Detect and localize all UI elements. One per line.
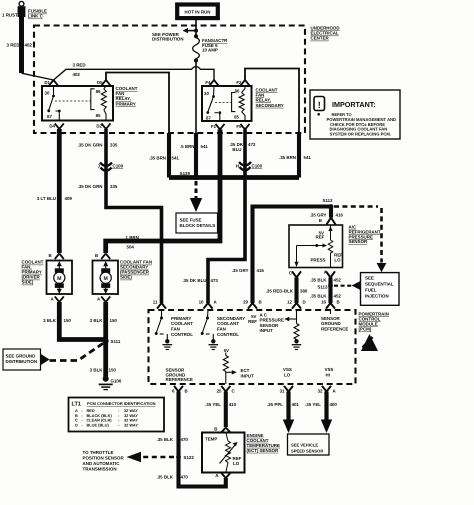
svg-text:410: 410	[229, 402, 237, 407]
svg-text:LO: LO	[284, 372, 291, 377]
junction dot	[194, 29, 198, 33]
svg-text:AND AUTOMATIC: AND AUTOMATIC	[83, 461, 121, 466]
svg-text:GROUND: GROUND	[321, 321, 342, 326]
label: underhood electrical center	[311, 26, 341, 41]
svg-text:D4: D4	[49, 124, 55, 129]
svg-text:.35 PPL: .35 PPL	[267, 402, 283, 407]
svg-text:B: B	[95, 253, 98, 258]
PCM pin 29 B	[243, 300, 262, 309]
svg-text:150: 150	[109, 368, 117, 373]
wire .35 RED-BLK 380 sensor C to PCM 12	[266, 278, 308, 304]
svg-text:POSITION SENSOR: POSITION SENSOR	[83, 456, 125, 461]
svg-text:402: 402	[73, 72, 81, 77]
svg-text:FAN: FAN	[217, 327, 226, 332]
dashed reference from S113 to sequential fuel injection	[334, 281, 361, 290]
sensor pin A	[324, 270, 335, 278]
wire .35 BLK 452 sensor A to PCM 16 with splice S113	[310, 277, 341, 303]
pin F4	[205, 80, 218, 86]
svg-text:F2: F2	[236, 80, 242, 85]
svg-text:TO THROTTLE: TO THROTTLE	[83, 450, 114, 455]
svg-text:473: 473	[248, 142, 256, 147]
wire .35 DK BLU 473 from F5 to PCM pin 10	[182, 130, 256, 304]
svg-text:CONTROL: CONTROL	[171, 332, 193, 337]
svg-text:DISTRIBUTION: DISTRIBUTION	[6, 359, 38, 364]
svg-text:10 AMP: 10 AMP	[202, 47, 218, 52]
coolant fan secondary motor M2	[93, 253, 119, 302]
relay primary dashed actuation link	[55, 100, 91, 102]
PCM internal: sensor ground reference (bottom left)	[166, 368, 193, 383]
svg-text:LO: LO	[334, 258, 341, 263]
svg-text:.35 YEL: .35 YEL	[305, 402, 321, 407]
svg-text:S112: S112	[323, 198, 334, 203]
svg-text:BLOCK DETAILS: BLOCK DETAILS	[180, 223, 216, 228]
svg-text:!: !	[318, 100, 321, 110]
pin F2	[236, 80, 249, 86]
svg-text:86: 86	[96, 89, 101, 94]
wire .35 BRN 541 from D5 to S139	[106, 73, 179, 178]
PCM pin 32 A (bottom)	[318, 386, 337, 394]
wire 3 LT BLU 409 from D4 to primary fan	[37, 129, 73, 253]
svg-text:D: D	[75, 422, 78, 427]
svg-text:LO: LO	[233, 461, 240, 466]
see sequential fuel injection box	[361, 273, 400, 306]
svg-text:RELAY,: RELAY,	[256, 98, 271, 103]
label: coolant fan secondary (passenger side)	[120, 260, 152, 280]
PCM pin 10 A	[199, 300, 218, 309]
svg-text:BLU: BLU	[232, 147, 241, 152]
wire .35 DK GRN 335 from D2 to PCM pin 11	[78, 129, 162, 303]
PCM internal: sensor ground reference (top right)	[321, 310, 348, 332]
svg-text:5V: 5V	[224, 348, 229, 353]
svg-text:REF: REF	[248, 319, 257, 324]
svg-text:SECONDARY: SECONDARY	[217, 316, 245, 321]
svg-text:.35 BRN: .35 BRN	[149, 155, 166, 160]
svg-text:400: 400	[330, 402, 338, 407]
PCM pin 12 D	[287, 300, 306, 309]
PCM pin 16 B	[321, 300, 340, 309]
PCM internal: 5V divider for ECT input	[223, 348, 254, 384]
coolant fan relay, primary (box)	[42, 86, 138, 121]
coolant fan primary motor M1	[47, 253, 73, 302]
svg-text:REFERENCE: REFERENCE	[321, 327, 348, 332]
dashed reference from S122 to throttle position sensor	[83, 450, 175, 472]
svg-text:BLUE (BLU): BLUE (BLU)	[87, 422, 110, 427]
svg-text:SENSOR: SENSOR	[260, 323, 280, 328]
svg-text:470: 470	[181, 475, 189, 480]
svg-text:INPUT: INPUT	[260, 328, 274, 333]
svg-text:VSS: VSS	[325, 367, 334, 372]
svg-text:F1: F1	[211, 124, 217, 129]
PCM internal: primary coolant fan control driver	[155, 310, 194, 350]
wire .35 YEL 400 from PCM 32	[305, 392, 337, 434]
svg-text:10: 10	[199, 300, 204, 305]
dashed reference to sequential fuel injection from S112	[334, 207, 386, 273]
svg-text:.35 GRY: .35 GRY	[310, 212, 327, 217]
svg-text:LT1: LT1	[72, 402, 82, 408]
svg-text:452: 452	[334, 293, 342, 298]
connector C100 pin J	[98, 163, 124, 171]
svg-text:FAN: FAN	[171, 327, 180, 332]
svg-text:SEE GROUND: SEE GROUND	[6, 354, 37, 359]
wire 3 BLK 150 from S111 to G106	[90, 341, 117, 379]
svg-text:3 RED: 3 RED	[7, 43, 21, 48]
svg-text:S111: S111	[111, 339, 121, 344]
svg-text:30: 30	[45, 91, 50, 96]
svg-text:.35 BLK: .35 BLK	[310, 293, 327, 298]
relay secondary dashed actuation link	[215, 102, 232, 104]
svg-text:DISTRIBUTION: DISTRIBUTION	[152, 37, 184, 42]
svg-text:85: 85	[96, 113, 101, 118]
svg-text:.35 BRN: .35 BRN	[279, 155, 296, 160]
see ground distribution box	[3, 349, 50, 370]
svg-text:.35 BLK: .35 BLK	[156, 475, 173, 480]
svg-text:HOT IN RUN: HOT IN RUN	[185, 9, 211, 14]
svg-text:SIDE): SIDE)	[120, 275, 132, 280]
svg-text:3 BLK: 3 BLK	[90, 318, 104, 323]
PCM internal: VSS LO / VSS HI labels	[283, 367, 333, 377]
svg-text:S113: S113	[317, 285, 328, 290]
relay secondary coil 86/85	[232, 86, 245, 121]
svg-text:PRIMARY: PRIMARY	[116, 101, 136, 106]
svg-text:PRIMARY: PRIMARY	[171, 316, 191, 321]
fusible link C	[2, 1, 47, 18]
pin D4	[49, 123, 63, 129]
svg-text:PRESS: PRESS	[310, 258, 325, 263]
svg-text:CENTER: CENTER	[311, 36, 330, 41]
svg-text:335: 335	[110, 184, 118, 189]
label: engine coolant temperature sensor	[247, 433, 280, 453]
svg-text:.35 BLK: .35 BLK	[156, 437, 173, 442]
svg-text:3 LT BLU: 3 LT BLU	[37, 196, 56, 201]
svg-text:SPEED SENSOR: SPEED SENSOR	[291, 449, 323, 454]
svg-text:12: 12	[287, 300, 292, 305]
svg-text:452: 452	[334, 277, 342, 282]
svg-text:SIDE): SIDE)	[22, 280, 34, 285]
svg-text:INPUT: INPUT	[241, 373, 255, 378]
svg-text:(PCM): (PCM)	[359, 327, 372, 332]
svg-text:B: B	[337, 300, 340, 305]
PCM internal: secondary coolant fan control driver	[201, 310, 246, 350]
svg-text:470: 470	[181, 437, 189, 442]
A/C refrigerant pressure sensor box	[289, 225, 381, 268]
svg-text:IMPORTANT:: IMPORTANT:	[332, 100, 376, 109]
underhood electrical center dashed box	[34, 26, 305, 134]
svg-text:SYSTEM OR REPLACING PCM.: SYSTEM OR REPLACING PCM.	[330, 132, 391, 137]
wire 3 BLK 150 from M1 to S111	[43, 302, 106, 340]
svg-text:409: 409	[65, 196, 73, 201]
PCM pin 25 C (bottom)	[217, 386, 236, 394]
sensor pin C	[289, 271, 301, 278]
svg-text:REFERENCE: REFERENCE	[166, 377, 193, 382]
svg-text:TRANSMISSION: TRANSMISSION	[83, 467, 117, 472]
wire .35 PPL 401 from PCM 31	[267, 392, 299, 434]
svg-text:REF: REF	[316, 235, 325, 240]
svg-text:87: 87	[206, 115, 211, 120]
svg-text:S139: S139	[180, 171, 191, 176]
svg-text:B: B	[319, 218, 322, 223]
junction dot below fuse	[194, 58, 198, 62]
svg-text:30: 30	[204, 91, 209, 96]
svg-text:29: 29	[243, 300, 248, 305]
sensor internals: potentiometer	[294, 225, 343, 268]
svg-text:B: B	[185, 389, 188, 394]
svg-text:PCM CONNECTOR IDENTIFICATION: PCM CONNECTOR IDENTIFICATION	[87, 401, 156, 406]
PCM internal: A/C pressure sensor input	[260, 312, 284, 333]
svg-text:B: B	[259, 300, 262, 305]
fuse FANS/ACTR FUSE 6 10 AMP	[193, 38, 229, 59]
svg-text:3 BLK: 3 BLK	[43, 318, 57, 323]
svg-text:B: B	[214, 427, 217, 432]
svg-text:.35 RED-BLK: .35 RED-BLK	[266, 289, 294, 294]
svg-text:25: 25	[217, 389, 222, 394]
HOT IN RUN box	[177, 5, 218, 19]
wire 3 RED 402 from fusible link	[7, 17, 54, 80]
svg-text:HI: HI	[326, 372, 330, 377]
svg-text:.35 DK GRN: .35 DK GRN	[78, 142, 103, 147]
wire 3 BLK 150 from M2 to S111	[90, 302, 118, 341]
see power distribution arrow	[152, 28, 196, 42]
svg-text:.35 YEL: .35 YEL	[205, 402, 221, 407]
svg-text:(ECT) SENSOR: (ECT) SENSOR	[247, 448, 280, 453]
svg-text:FUEL: FUEL	[365, 288, 377, 293]
svg-text:85: 85	[234, 114, 239, 119]
PCM internal: pull-up on pin 12 with input arrow	[284, 310, 301, 350]
svg-text:SECONDARY: SECONDARY	[256, 103, 284, 108]
svg-text:A C: A C	[260, 312, 268, 317]
svg-text:D5: D5	[97, 80, 103, 85]
label: coolant fan primary (driver side)	[22, 260, 44, 285]
svg-text:M: M	[57, 276, 61, 282]
svg-text:.5 BRN: .5 BRN	[180, 144, 195, 149]
label: powertrain control module (PCM)	[359, 311, 389, 331]
svg-text:504: 504	[127, 245, 135, 250]
svg-text:.35 BLK: .35 BLK	[310, 277, 327, 282]
PCM pin 6 B (bottom)	[172, 386, 188, 394]
svg-text:C100: C100	[252, 164, 263, 169]
ground G106	[99, 376, 122, 390]
svg-text:M: M	[104, 276, 108, 282]
svg-text:541: 541	[201, 144, 209, 149]
splice S111	[103, 338, 121, 344]
svg-text:416: 416	[336, 212, 344, 217]
wire .35 BRN 541 from F2 to S139	[245, 69, 311, 178]
svg-text:ECT: ECT	[241, 368, 250, 373]
see vehicle speed sensor box	[288, 434, 330, 455]
svg-text:402: 402	[25, 43, 33, 48]
svg-text:D1: D1	[44, 80, 50, 85]
wire .5 BRN 541 from fuse down to S139	[180, 61, 208, 178]
svg-text:31: 31	[280, 389, 285, 394]
svg-text:86: 86	[235, 88, 240, 93]
wire .35 YEL 410 from PCM 25 to ECT B	[205, 392, 237, 428]
relay primary internals: 30 contact and switch	[45, 86, 61, 120]
wire from HOT IN RUN down	[195, 20, 197, 38]
svg-text:LINK C: LINK C	[28, 14, 44, 19]
svg-text:380: 380	[300, 289, 308, 294]
see fuse block details box	[176, 213, 218, 233]
svg-text:32: 32	[318, 389, 323, 394]
svg-text:F4: F4	[205, 80, 211, 85]
svg-text:401: 401	[292, 402, 300, 407]
pin D5	[97, 80, 111, 86]
pin F5	[236, 124, 249, 130]
dashed link to S111	[50, 343, 104, 361]
svg-text:RELAY,: RELAY,	[116, 96, 131, 101]
svg-text:150: 150	[64, 318, 72, 323]
svg-text:TEMP: TEMP	[205, 437, 217, 442]
wire 3 RED 402 horizontal feed to D1 and F4	[54, 63, 215, 81]
pin D1	[44, 80, 58, 86]
engine coolant temperature (ECT) sensor	[202, 427, 245, 479]
svg-text:3 RED: 3 RED	[73, 63, 87, 68]
svg-text:541: 541	[304, 155, 312, 160]
svg-text:SENSOR: SENSOR	[349, 239, 369, 244]
relay primary coil 86/85	[91, 86, 107, 120]
svg-text:11: 11	[153, 300, 158, 305]
PCM dashed box	[149, 310, 356, 384]
svg-text:COOLANT: COOLANT	[217, 321, 239, 326]
svg-text:B: B	[49, 253, 52, 258]
svg-text:.35 DK BLU: .35 DK BLU	[182, 278, 206, 283]
coolant fan relay, secondary (box)	[202, 86, 284, 121]
relay secondary internals: 30 contact and switch	[204, 86, 221, 121]
svg-text:G106: G106	[111, 379, 122, 384]
svg-text:87: 87	[47, 114, 52, 119]
svg-text:SEE VEHICLE: SEE VEHICLE	[291, 442, 318, 447]
svg-text:150: 150	[110, 318, 118, 323]
svg-text:.35 DK GRN: .35 DK GRN	[78, 184, 103, 189]
svg-text:S122: S122	[184, 455, 195, 460]
svg-text:416: 416	[257, 268, 265, 273]
svg-text:1 BRN: 1 BRN	[126, 235, 139, 240]
wire .35 GRY 416 PCM 29 to S112	[232, 207, 331, 304]
wire .35 BLK 470 from PCM 6 to ECT A with splice S122	[156, 392, 225, 487]
svg-text:H: H	[236, 164, 239, 169]
svg-text:SEQUENTIAL: SEQUENTIAL	[365, 282, 394, 287]
wire 1 BRN 504 from F1 to secondary fan	[106, 130, 220, 254]
svg-text:CONTROL: CONTROL	[217, 332, 239, 337]
svg-text:SEE: SEE	[365, 276, 374, 281]
svg-text:541: 541	[172, 155, 180, 160]
arrow from S139 to fuse block details	[190, 181, 202, 212]
connector C100 pin H	[236, 162, 263, 170]
wire .35 GRY 416 S112 to sensor pin B	[310, 207, 344, 225]
junction dot	[194, 34, 198, 38]
svg-text:C100: C100	[113, 164, 124, 169]
PCM pin 31 (bottom)	[280, 386, 293, 394]
svg-text:PRESSURE: PRESSURE	[260, 318, 284, 323]
svg-text:F5: F5	[236, 124, 242, 129]
LT1 PCM connector identification box	[69, 398, 165, 432]
IMPORTANT note box	[310, 90, 400, 139]
svg-text:.35 GRY: .35 GRY	[232, 268, 249, 273]
svg-text:INJECTION: INJECTION	[365, 294, 389, 299]
ESD warning symbol	[361, 334, 378, 351]
svg-text:SENSOR: SENSOR	[321, 316, 341, 321]
splice S139 bus	[169, 171, 299, 180]
svg-text:1 RUST: 1 RUST	[2, 13, 18, 18]
svg-text:335: 335	[110, 142, 118, 147]
pin D2	[96, 123, 110, 129]
svg-text:16: 16	[321, 300, 326, 305]
svg-text:COOLANT: COOLANT	[171, 321, 193, 326]
svg-text:VSS: VSS	[283, 367, 292, 372]
svg-text:D2: D2	[96, 124, 102, 129]
PCM internal: 5V REF label	[248, 314, 257, 324]
svg-text:SEE FUSE: SEE FUSE	[180, 218, 202, 223]
PCM pin 11	[153, 300, 166, 309]
pin F1	[211, 124, 225, 130]
svg-text:32 WAY: 32 WAY	[124, 422, 138, 427]
svg-text:473: 473	[211, 278, 219, 283]
splice S112	[323, 198, 334, 209]
svg-text:3 BLK: 3 BLK	[90, 368, 104, 373]
